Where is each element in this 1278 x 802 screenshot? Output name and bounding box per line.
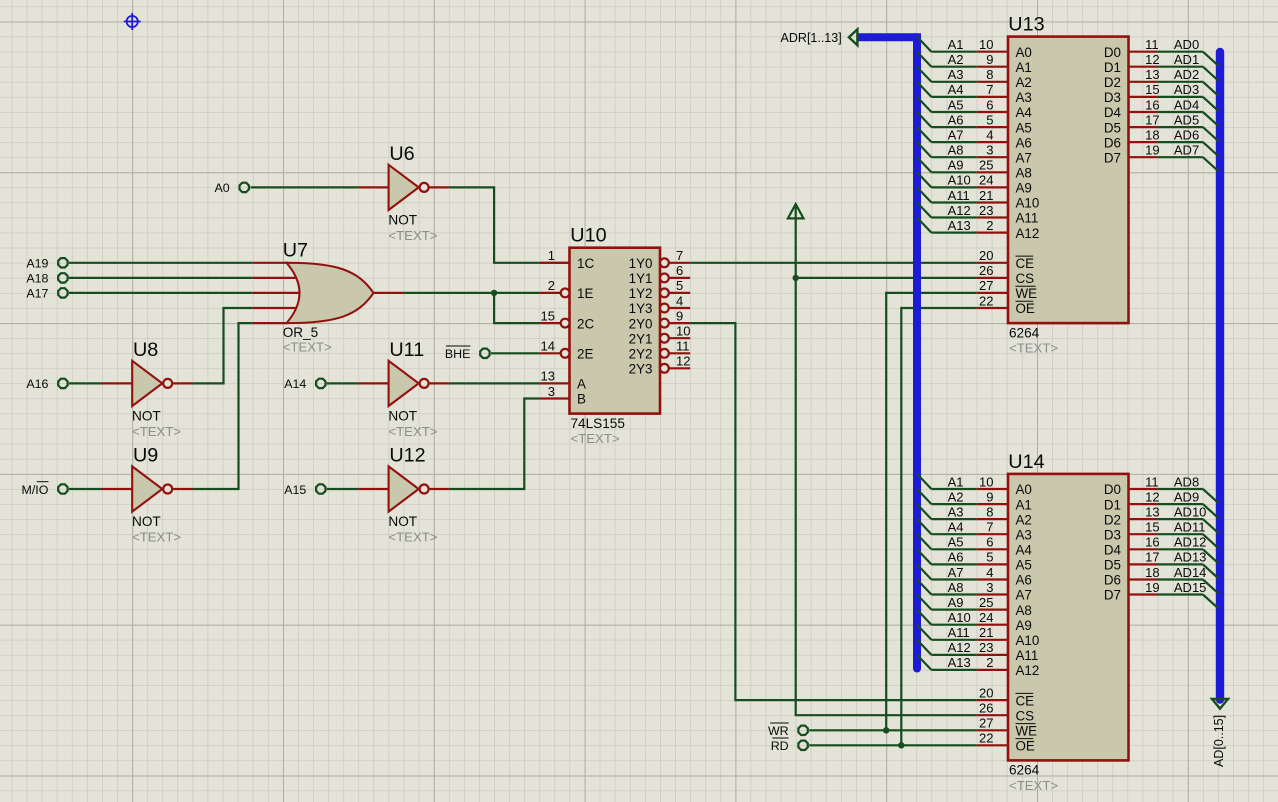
svg-text:BHE: BHE xyxy=(445,347,470,361)
svg-text:25: 25 xyxy=(979,158,993,173)
wire M/IO terminal to U9 input xyxy=(69,488,102,490)
svg-text:A3: A3 xyxy=(948,67,964,82)
svg-text:A4: A4 xyxy=(948,82,964,97)
svg-text:16: 16 xyxy=(1145,97,1159,112)
svg-text:5: 5 xyxy=(986,550,993,565)
pin stub U10 1C xyxy=(539,262,569,264)
pin 6 (U10 1Y1) xyxy=(629,263,691,286)
svg-text:6: 6 xyxy=(676,263,683,278)
svg-text:25: 25 xyxy=(979,595,993,610)
pin 7 (U13 A3) with net label A4 xyxy=(917,82,1032,105)
pin 14 (U10 2E) xyxy=(539,339,593,362)
pin 11 (U10 2Y2) xyxy=(629,339,691,362)
svg-text:18: 18 xyxy=(1145,565,1159,580)
svg-text:D7: D7 xyxy=(1104,150,1121,165)
svg-text:OE: OE xyxy=(1016,301,1035,316)
svg-text:NOT: NOT xyxy=(388,213,417,228)
pin stub U9 output xyxy=(173,488,192,490)
inverter U8 xyxy=(132,339,181,439)
svg-text:A7: A7 xyxy=(1016,150,1032,165)
sheet origin marker xyxy=(124,13,141,30)
svg-text:AD6: AD6 xyxy=(1174,127,1199,142)
svg-text:<TEXT>: <TEXT> xyxy=(388,424,437,439)
svg-text:3: 3 xyxy=(986,580,993,595)
svg-text:U14: U14 xyxy=(1008,451,1044,473)
wire U8 output to U7 input 4 xyxy=(193,308,253,383)
pin 12 (U13 D1) with net label AD1 xyxy=(1104,52,1219,81)
pin 5 (U10 1Y2) xyxy=(629,278,691,301)
svg-text:A7: A7 xyxy=(1016,588,1032,603)
wire U13 CS branch xyxy=(796,277,977,279)
svg-text:27: 27 xyxy=(979,278,993,293)
pin 13 (U13 D2) with net label AD2 xyxy=(1104,67,1219,96)
svg-text:24: 24 xyxy=(979,610,993,625)
svg-text:A4: A4 xyxy=(948,520,964,535)
svg-text:A8: A8 xyxy=(948,580,964,595)
svg-text:1C: 1C xyxy=(577,256,594,271)
svg-text:<TEXT>: <TEXT> xyxy=(132,424,181,439)
pin 19 (U13 D7) with net label AD7 xyxy=(1104,143,1219,172)
svg-text:<TEXT>: <TEXT> xyxy=(132,530,181,545)
pin 10 (U14 A0) with net label A1 xyxy=(917,474,1032,497)
pin stub U12 output xyxy=(430,488,449,490)
svg-text:3: 3 xyxy=(548,384,555,399)
bus ADR[1..13] xyxy=(858,33,917,668)
svg-text:18: 18 xyxy=(1145,127,1159,142)
wire A0 terminal to U6 input xyxy=(251,186,359,188)
svg-text:WR: WR xyxy=(768,724,789,738)
pin stubs U7 inputs xyxy=(253,263,300,323)
pin 16 (U14 D4) with net label AD12 xyxy=(1104,535,1219,564)
svg-text:12: 12 xyxy=(676,354,690,369)
svg-text:A0: A0 xyxy=(1016,45,1032,60)
svg-text:11: 11 xyxy=(676,339,690,354)
svg-text:A6: A6 xyxy=(1016,135,1032,150)
wire branch to U10 pin 2C xyxy=(494,293,539,323)
svg-text:A13: A13 xyxy=(948,218,971,233)
junction RD net xyxy=(898,742,904,748)
svg-text:M/IO: M/IO xyxy=(22,483,49,497)
svg-text:D7: D7 xyxy=(1104,588,1121,603)
svg-text:6: 6 xyxy=(986,535,993,550)
svg-text:A8: A8 xyxy=(1016,166,1032,181)
svg-text:D5: D5 xyxy=(1104,120,1121,135)
svg-text:AD2: AD2 xyxy=(1174,67,1199,82)
svg-text:A17: A17 xyxy=(26,287,48,301)
pin stub U6 input xyxy=(358,186,388,188)
wire U12 output to U10 pin B xyxy=(449,399,540,490)
svg-text:11: 11 xyxy=(1145,37,1159,52)
svg-text:B: B xyxy=(577,392,586,407)
pin 7 (U14 A3) with net label A4 xyxy=(917,519,1032,542)
pin 13 (U10 A) xyxy=(539,369,586,392)
terminal M/IO xyxy=(22,482,68,497)
pin 25 (U13 A8) with net label A9 xyxy=(917,157,1032,180)
svg-text:AD7: AD7 xyxy=(1174,143,1199,158)
pin stub U8 output xyxy=(173,382,192,384)
pin 5 (U14 A5) with net label A6 xyxy=(917,549,1032,572)
wire WR net vertical U13 WE to WR row xyxy=(886,293,977,730)
pin 12 (U10 2Y3) xyxy=(629,354,691,377)
pin 12 (U14 D1) with net label AD9 xyxy=(1104,489,1219,518)
svg-text:20: 20 xyxy=(979,248,993,263)
net label AD[0..15] xyxy=(1212,715,1226,767)
svg-text:A12: A12 xyxy=(1016,226,1040,241)
svg-text:21: 21 xyxy=(979,188,993,203)
pin stub U9 input xyxy=(102,488,132,490)
svg-text:16: 16 xyxy=(1145,535,1159,550)
wire RD terminal to U14 OE xyxy=(809,744,977,746)
svg-text:17: 17 xyxy=(1145,112,1159,127)
svg-text:D6: D6 xyxy=(1104,573,1121,588)
svg-text:U8: U8 xyxy=(133,339,158,361)
wire BHE terminal to U10 pin 2E xyxy=(491,352,540,354)
inverter U11 xyxy=(388,339,437,439)
svg-text:15: 15 xyxy=(1145,520,1159,535)
pin 22 (U14 OE) xyxy=(977,731,1035,754)
pin 26 (U14 CS) xyxy=(977,701,1034,724)
svg-text:A19: A19 xyxy=(26,257,48,271)
svg-text:A16: A16 xyxy=(26,377,48,391)
svg-text:7: 7 xyxy=(676,248,683,263)
svg-text:1Y2: 1Y2 xyxy=(629,286,653,301)
svg-text:AD8: AD8 xyxy=(1174,474,1199,489)
pin stub U11 output xyxy=(430,382,449,384)
svg-text:<TEXT>: <TEXT> xyxy=(388,530,437,545)
wire U6 output to U10 pin 1C xyxy=(449,187,540,262)
svg-text:<TEXT>: <TEXT> xyxy=(1009,778,1058,793)
svg-text:CS: CS xyxy=(1016,271,1035,286)
svg-text:9: 9 xyxy=(986,52,993,67)
pin 3 (U13 A7) with net label A8 xyxy=(917,142,1032,165)
svg-text:AD14: AD14 xyxy=(1174,565,1207,580)
svg-text:A6: A6 xyxy=(948,550,964,565)
svg-text:A3: A3 xyxy=(1016,90,1032,105)
svg-text:A2: A2 xyxy=(948,489,964,504)
svg-text:WE: WE xyxy=(1016,286,1038,301)
pin 17 (U13 D5) with net label AD5 xyxy=(1104,112,1219,141)
pin 5 (U13 A5) with net label A6 xyxy=(917,112,1032,135)
svg-text:A18: A18 xyxy=(26,272,48,286)
svg-text:U6: U6 xyxy=(389,143,414,165)
wire A18 terminal to U7 input xyxy=(69,277,253,279)
svg-text:A14: A14 xyxy=(284,377,306,391)
svg-text:A4: A4 xyxy=(1016,105,1033,120)
svg-text:CE: CE xyxy=(1016,256,1035,271)
svg-text:U12: U12 xyxy=(389,445,425,467)
pin 25 (U14 A8) with net label A9 xyxy=(917,595,1032,618)
pin 19 (U14 D7) with net label AD15 xyxy=(1104,580,1219,609)
pin 6 (U14 A4) with net label A5 xyxy=(917,534,1032,557)
svg-text:8: 8 xyxy=(986,67,993,82)
pin 9 (U10 2Y0) xyxy=(629,308,691,331)
wire WR terminal to U14 WE xyxy=(809,729,977,731)
svg-text:4: 4 xyxy=(676,293,683,308)
terminal bus arrow ADR xyxy=(849,29,858,45)
svg-text:AD0: AD0 xyxy=(1174,37,1199,52)
svg-text:A3: A3 xyxy=(948,504,964,519)
terminal bus arrow AD xyxy=(1212,699,1228,709)
svg-text:D3: D3 xyxy=(1104,90,1121,105)
wire U9 output to U7 input 5 xyxy=(193,323,253,489)
inverter U9 xyxy=(132,445,181,545)
svg-text:26: 26 xyxy=(979,263,993,278)
pin 24 (U13 A9) with net label A10 xyxy=(917,172,1032,195)
pin 20 (U13 CE) xyxy=(977,248,1034,271)
svg-text:AD5: AD5 xyxy=(1174,112,1199,127)
junction CS net at U13 CS row xyxy=(793,275,799,281)
svg-text:6: 6 xyxy=(986,97,993,112)
svg-text:4: 4 xyxy=(986,565,993,580)
svg-text:A0: A0 xyxy=(1016,482,1032,497)
pin 13 (U14 D2) with net label AD10 xyxy=(1104,504,1219,533)
svg-text:CE: CE xyxy=(1016,693,1035,708)
or-gate U7 OR_5 xyxy=(283,239,374,354)
svg-text:NOT: NOT xyxy=(132,409,161,424)
svg-text:2E: 2E xyxy=(577,347,593,362)
pin 4 (U10 1Y3) xyxy=(629,293,691,316)
svg-text:A1: A1 xyxy=(948,474,964,489)
svg-text:A4: A4 xyxy=(1016,543,1033,558)
svg-text:9: 9 xyxy=(676,308,683,323)
svg-text:74LS155: 74LS155 xyxy=(571,416,625,431)
pin stub U6 output xyxy=(430,186,449,188)
terminal A17 xyxy=(26,287,67,301)
svg-text:19: 19 xyxy=(1145,143,1159,158)
wire RD net vertical U13 OE to RD row xyxy=(901,308,976,745)
svg-text:2: 2 xyxy=(548,278,555,293)
svg-text:D1: D1 xyxy=(1104,60,1121,75)
pin 11 (U13 D0) with net label AD0 xyxy=(1104,37,1219,66)
pin 18 (U13 D6) with net label AD6 xyxy=(1104,127,1219,156)
pin 27 (U13 WE) xyxy=(977,278,1037,301)
svg-text:2Y3: 2Y3 xyxy=(629,362,653,377)
pin 4 (U14 A6) with net label A7 xyxy=(917,564,1032,587)
net label ADR[1..13] xyxy=(781,31,842,45)
terminal WR xyxy=(768,723,808,738)
svg-text:A10: A10 xyxy=(1016,633,1040,648)
svg-text:AD11: AD11 xyxy=(1174,520,1206,535)
svg-text:<TEXT>: <TEXT> xyxy=(571,431,620,446)
svg-text:22: 22 xyxy=(979,293,993,308)
svg-text:D2: D2 xyxy=(1104,512,1121,527)
pin 23 (U14 A11) with net label A12 xyxy=(917,640,1038,663)
pin 20 (U14 CE) xyxy=(977,685,1034,708)
svg-text:AD1: AD1 xyxy=(1174,52,1199,67)
svg-text:AD13: AD13 xyxy=(1174,550,1207,565)
svg-text:1Y3: 1Y3 xyxy=(629,301,653,316)
svg-text:D3: D3 xyxy=(1104,527,1121,542)
svg-text:A10: A10 xyxy=(1016,196,1040,211)
bus AD[0..15] xyxy=(1216,52,1224,700)
svg-text:A7: A7 xyxy=(948,127,964,142)
svg-text:1E: 1E xyxy=(577,286,593,301)
svg-text:2Y2: 2Y2 xyxy=(629,347,653,362)
svg-text:AD[0..15]: AD[0..15] xyxy=(1212,715,1226,767)
svg-text:23: 23 xyxy=(979,640,993,655)
svg-text:U10: U10 xyxy=(570,225,606,247)
svg-text:A11: A11 xyxy=(1016,648,1039,663)
terminal A16 xyxy=(26,377,67,391)
pin 3 (U14 A7) with net label A8 xyxy=(917,580,1032,603)
svg-text:ADR[1..13]: ADR[1..13] xyxy=(781,31,842,45)
svg-text:8: 8 xyxy=(986,504,993,519)
svg-text:AD3: AD3 xyxy=(1174,82,1199,97)
pin 15 (U10 2C) xyxy=(539,308,594,331)
svg-text:A5: A5 xyxy=(948,97,964,112)
svg-text:U11: U11 xyxy=(389,339,424,361)
pin 10 (U10 2Y1) xyxy=(629,324,691,347)
svg-text:27: 27 xyxy=(979,716,993,731)
svg-text:2Y1: 2Y1 xyxy=(629,331,653,346)
pin 15 (U13 D3) with net label AD3 xyxy=(1104,82,1219,111)
wire A15 terminal to U12 input xyxy=(327,488,359,490)
svg-text:U9: U9 xyxy=(133,445,158,467)
pin 26 (U13 CS) xyxy=(977,263,1034,286)
svg-text:5: 5 xyxy=(676,278,683,293)
svg-text:20: 20 xyxy=(979,685,993,700)
svg-text:<TEXT>: <TEXT> xyxy=(1009,341,1058,356)
svg-text:10: 10 xyxy=(979,474,993,489)
svg-text:21: 21 xyxy=(979,625,993,640)
svg-text:A10: A10 xyxy=(948,610,971,625)
svg-text:A8: A8 xyxy=(1016,603,1032,618)
pin 2 (U14 A12) with net label A13 xyxy=(917,655,1039,678)
pin 15 (U14 D3) with net label AD11 xyxy=(1104,520,1219,549)
svg-text:OE: OE xyxy=(1016,739,1035,754)
svg-text:2: 2 xyxy=(986,218,993,233)
terminal A18 xyxy=(26,272,67,286)
pin 6 (U13 A4) with net label A5 xyxy=(917,97,1032,120)
svg-text:1Y1: 1Y1 xyxy=(629,271,653,286)
svg-text:A12: A12 xyxy=(1016,663,1040,678)
svg-text:2: 2 xyxy=(986,655,993,670)
wire A16 terminal to U8 input xyxy=(69,382,102,384)
svg-text:17: 17 xyxy=(1145,550,1159,565)
svg-text:A5: A5 xyxy=(1016,120,1032,135)
terminal RD xyxy=(771,738,808,753)
svg-text:13: 13 xyxy=(1145,67,1159,82)
svg-text:A2: A2 xyxy=(1016,75,1032,90)
svg-text:6264: 6264 xyxy=(1009,763,1040,778)
pin 9 (U14 A1) with net label A2 xyxy=(917,489,1032,512)
terminal A15 xyxy=(284,483,325,497)
pin 18 (U14 D6) with net label AD14 xyxy=(1104,565,1219,594)
svg-text:D6: D6 xyxy=(1104,135,1121,150)
svg-text:A11: A11 xyxy=(1016,211,1039,226)
pin 16 (U13 D4) with net label AD4 xyxy=(1104,97,1219,126)
svg-text:CS: CS xyxy=(1016,708,1035,723)
pin 4 (U13 A6) with net label A7 xyxy=(917,127,1032,150)
svg-text:AD10: AD10 xyxy=(1174,504,1207,519)
svg-text:A0: A0 xyxy=(215,181,230,195)
svg-text:14: 14 xyxy=(541,339,555,354)
pin 17 (U14 D5) with net label AD13 xyxy=(1104,550,1219,579)
svg-text:WE: WE xyxy=(1016,724,1038,739)
svg-text:A9: A9 xyxy=(948,595,964,610)
terminal CS net up arrow xyxy=(788,204,804,218)
pin 2 (U10 1E) xyxy=(539,278,593,301)
svg-text:A2: A2 xyxy=(948,52,964,67)
terminal A19 xyxy=(26,257,67,271)
svg-text:A11: A11 xyxy=(948,625,970,640)
svg-text:NOT: NOT xyxy=(388,409,417,424)
svg-text:A: A xyxy=(577,377,586,392)
svg-text:6264: 6264 xyxy=(1009,325,1040,340)
svg-text:D4: D4 xyxy=(1104,543,1122,558)
svg-text:11: 11 xyxy=(1145,474,1159,489)
pin 8 (U13 A2) with net label A3 xyxy=(917,67,1032,90)
svg-text:13: 13 xyxy=(541,369,555,384)
svg-text:7: 7 xyxy=(986,82,993,97)
pin 3 (U10 B) xyxy=(539,384,586,407)
svg-text:12: 12 xyxy=(1145,489,1159,504)
svg-text:A11: A11 xyxy=(948,188,970,203)
wire U7 output to U10 pin 1E xyxy=(404,292,540,294)
svg-text:RD: RD xyxy=(771,739,789,753)
pin 11 (U14 D0) with net label AD8 xyxy=(1104,474,1219,503)
svg-text:4: 4 xyxy=(986,127,993,142)
svg-text:D4: D4 xyxy=(1104,105,1122,120)
svg-text:26: 26 xyxy=(979,701,993,716)
svg-text:A9: A9 xyxy=(1016,618,1032,633)
svg-text:A3: A3 xyxy=(1016,527,1032,542)
wire U10 1Y0 to U13 CE xyxy=(690,262,977,264)
inverter U12 xyxy=(388,445,437,545)
inverter U6 xyxy=(388,143,437,243)
svg-text:2Y0: 2Y0 xyxy=(629,316,653,331)
pin 22 (U13 OE) xyxy=(977,293,1035,316)
pin 10 (U13 A0) with net label A1 xyxy=(917,37,1032,60)
pin 23 (U13 A11) with net label A12 xyxy=(917,203,1038,226)
svg-text:D1: D1 xyxy=(1104,497,1121,512)
svg-text:U13: U13 xyxy=(1008,14,1044,36)
pin 27 (U14 WE) xyxy=(977,716,1037,739)
pin 9 (U13 A1) with net label A2 xyxy=(917,52,1032,75)
wire A14 terminal to U11 input xyxy=(327,382,359,384)
svg-text:A12: A12 xyxy=(948,203,971,218)
svg-text:15: 15 xyxy=(1145,82,1159,97)
svg-text:A5: A5 xyxy=(1016,558,1032,573)
wire CS net vertical to U13 CS and U14 CS xyxy=(796,205,977,716)
pin 21 (U13 A10) with net label A11 xyxy=(917,187,1039,210)
svg-text:A13: A13 xyxy=(948,655,971,670)
svg-text:AD4: AD4 xyxy=(1174,97,1199,112)
svg-text:19: 19 xyxy=(1145,580,1159,595)
svg-text:A1: A1 xyxy=(1016,60,1032,75)
terminal A14 xyxy=(284,377,325,391)
svg-text:A7: A7 xyxy=(948,565,964,580)
pin 24 (U14 A9) with net label A10 xyxy=(917,610,1032,633)
junction WR net xyxy=(883,727,889,733)
svg-text:U7: U7 xyxy=(283,239,308,261)
svg-text:24: 24 xyxy=(979,173,993,188)
pin stub U7 output xyxy=(374,292,404,294)
pin 2 (U13 A12) with net label A13 xyxy=(917,218,1039,241)
svg-text:A6: A6 xyxy=(948,112,964,127)
memory chip U13 6264 xyxy=(1008,14,1129,356)
svg-text:3: 3 xyxy=(986,143,993,158)
svg-text:D0: D0 xyxy=(1104,482,1121,497)
svg-text:10: 10 xyxy=(979,37,993,52)
svg-text:22: 22 xyxy=(979,731,993,746)
svg-text:1: 1 xyxy=(548,248,555,263)
svg-text:9: 9 xyxy=(986,489,993,504)
pin stub U11 input xyxy=(358,382,388,384)
svg-text:OR_5: OR_5 xyxy=(283,325,319,340)
wire U10 2Y0 to U14 CE xyxy=(690,323,977,700)
svg-text:10: 10 xyxy=(676,324,690,339)
